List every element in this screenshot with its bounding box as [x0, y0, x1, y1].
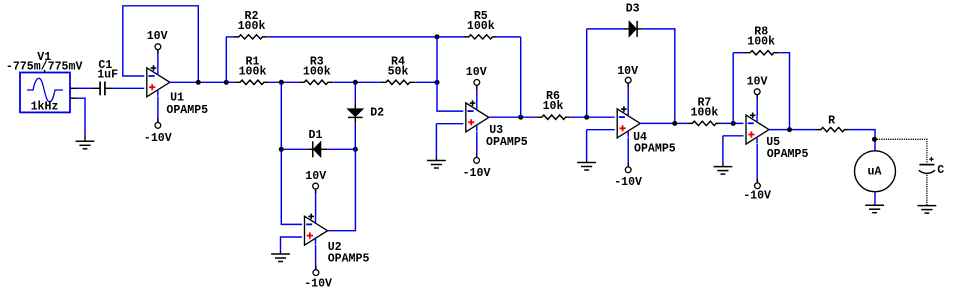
wire R to meter: [850, 130, 875, 151]
capacitor C: [919, 157, 935, 173]
wire U1 output: [170, 81, 235, 83]
svg-text:R: R: [828, 115, 835, 128]
label C1: [98, 59, 112, 72]
wire R6 to U4: [571, 116, 615, 118]
label U1 OPAMP5: [166, 104, 208, 117]
label -775m/775mV: [6, 60, 83, 73]
wire V1 pin1 to C1: [77, 87, 100, 89]
svg-text:D2: D2: [370, 106, 384, 119]
ground at U3: [427, 158, 446, 169]
svg-text:10V: 10V: [305, 170, 326, 183]
U3 +10V power wire: [476, 85, 478, 104]
diode D2: [347, 104, 363, 122]
node R8 branch: [731, 121, 736, 126]
node D1 left: [279, 147, 284, 152]
label D2: [370, 106, 384, 119]
label D3: [626, 2, 640, 15]
svg-text:D1: D1: [309, 129, 323, 142]
wire U5 noninverting to ground: [723, 136, 744, 164]
svg-text:U1: U1: [170, 92, 184, 105]
terminal -10V of U3: [474, 153, 480, 163]
resistor R: [816, 127, 850, 131]
ground below C: [918, 205, 937, 213]
svg-text:-10V: -10V: [463, 167, 491, 180]
wire D3 loop left: [586, 29, 588, 117]
U4 -10V power wire: [627, 137, 629, 167]
diode D3: [624, 21, 643, 37]
op-amp U3: [466, 100, 489, 132]
terminal 10V of U5: [754, 89, 760, 99]
terminal -10V of U4: [625, 163, 631, 173]
wire D1 to D2 branch: [327, 148, 355, 150]
label 10V of U3: [466, 66, 487, 79]
svg-text:OPAMP5: OPAMP5: [486, 136, 528, 149]
label U2: [328, 241, 342, 254]
label -10V of U2: [304, 278, 332, 291]
svg-text:OPAMP5: OPAMP5: [166, 104, 208, 117]
svg-text:10k: 10k: [543, 100, 564, 113]
node summing top: [435, 34, 440, 39]
labels R6 10k: [543, 90, 564, 113]
wire to D2: [354, 82, 356, 104]
ground below meter: [865, 204, 884, 213]
wire C1 to U1 noninverting input: [106, 87, 145, 89]
op-amp U2: [305, 214, 328, 246]
U5 -10V power wire: [756, 144, 758, 183]
svg-text:10V: 10V: [147, 30, 168, 43]
terminal 10V of U4: [625, 77, 631, 87]
wire R8 row left: [733, 52, 745, 54]
node summing main: [435, 80, 440, 85]
label -10V of U3: [463, 167, 491, 180]
svg-text:10V: 10V: [466, 66, 487, 79]
U3 -10V power wire: [476, 131, 478, 157]
svg-text:1kHz: 1kHz: [31, 101, 59, 114]
resistor R7: [687, 121, 721, 125]
wire down to D1 and U2 inverting input: [281, 82, 302, 224]
label U4: [633, 131, 647, 144]
node D1 branch: [279, 80, 284, 85]
ground at U4: [577, 160, 596, 171]
svg-text:100k: 100k: [303, 65, 331, 78]
svg-text:10V: 10V: [747, 76, 768, 89]
label 10V of U2: [305, 170, 326, 183]
ground at U5: [714, 164, 733, 175]
labels R1 100k: [239, 55, 267, 78]
ammeter uA: [855, 151, 896, 192]
labels R8 100k: [747, 26, 775, 49]
label U3: [489, 124, 503, 137]
svg-text:100k: 100k: [467, 20, 495, 33]
labels R5 100k: [467, 10, 495, 33]
resistor R1: [235, 80, 269, 84]
wire U4 noninverting to ground: [587, 130, 615, 160]
svg-text:-10V: -10V: [743, 190, 771, 203]
U1 +10V power wire: [157, 50, 159, 69]
svg-text:D3: D3: [626, 2, 640, 15]
wire R7 to U5: [722, 122, 744, 124]
resistor R5: [464, 35, 498, 39]
svg-text:10V: 10V: [617, 65, 638, 78]
label U2 OPAMP5: [328, 253, 370, 266]
svg-text:100k: 100k: [238, 20, 266, 33]
label U1: [170, 92, 184, 105]
node D2 branch: [353, 80, 358, 85]
label C: [937, 164, 944, 177]
label 10V of U4: [617, 65, 638, 78]
svg-text:C: C: [937, 164, 944, 177]
node U3 output: [518, 115, 523, 120]
node R2 branch: [224, 80, 229, 85]
label 10V of U1: [147, 30, 168, 43]
label U5: [766, 136, 780, 149]
wire U3 noninverting to ground: [436, 124, 463, 158]
svg-text:100k: 100k: [690, 106, 718, 119]
terminal -10V of U2: [313, 266, 319, 276]
terminal 10V of U3: [474, 80, 480, 90]
terminal -10V of U5: [755, 179, 761, 189]
svg-text:100k: 100k: [747, 36, 775, 49]
terminal -10V of U1: [155, 118, 161, 128]
wire U2 noninverting to ground: [281, 237, 303, 251]
label 1uF: [97, 68, 118, 81]
voltage source V1 box: [20, 73, 70, 113]
V1 pin 2: [70, 97, 77, 99]
op-amp U4: [617, 106, 640, 138]
wire to D1: [281, 148, 308, 150]
svg-text:uA: uA: [868, 166, 882, 179]
label 1kHz: [31, 101, 59, 114]
dotted wire C to ground: [926, 175, 928, 206]
U2 +10V power wire: [315, 189, 317, 217]
wire U2 output up: [328, 149, 356, 230]
svg-text:OPAMP5: OPAMP5: [767, 148, 809, 161]
wire R8 loop right: [779, 53, 789, 130]
U4 +10V power wire: [627, 83, 629, 110]
ground below V1: [76, 134, 95, 149]
labels R4 50k: [388, 55, 409, 78]
label R: [828, 115, 835, 128]
svg-text:-10V: -10V: [614, 176, 642, 189]
wire D3 row left: [587, 28, 624, 30]
svg-text:50k: 50k: [388, 65, 409, 78]
wire meter to ground: [874, 192, 876, 204]
label -10V of U4: [614, 176, 642, 189]
wire R2 to node B: [268, 36, 464, 38]
label V1: [37, 51, 51, 64]
wire D2 to D1 row: [354, 122, 356, 149]
labels R2 100k: [238, 10, 266, 33]
wire U3 output: [489, 116, 537, 118]
op-amp U1: [147, 65, 170, 97]
label U3 OPAMP5: [486, 136, 528, 149]
wire V1 pin2 to ground: [77, 98, 86, 134]
label D1: [309, 129, 323, 142]
terminal 10V of U1: [155, 44, 161, 54]
node D1 right: [353, 147, 358, 152]
label -10V of U5: [743, 190, 771, 203]
labels R3 100k: [303, 55, 331, 78]
wire R8 loop left: [732, 53, 734, 124]
label 10V of U5: [747, 76, 768, 89]
diode D1: [308, 141, 327, 157]
resistor R4: [381, 80, 415, 84]
wire D3 loop right: [643, 29, 675, 124]
U2 -10V power wire: [315, 245, 317, 270]
label -10V of U1: [144, 132, 172, 145]
node D3 branch: [584, 115, 589, 120]
labels R7 100k: [690, 96, 718, 119]
label U4 OPAMP5: [634, 143, 676, 156]
wire R2 row left: [226, 36, 233, 38]
label U5 OPAMP5: [767, 148, 809, 161]
svg-text:-10V: -10V: [144, 132, 172, 145]
wire R3 to R4: [333, 81, 381, 83]
U1 -10V power wire: [157, 96, 159, 122]
node U1 output: [196, 80, 201, 85]
node U5 output: [787, 127, 792, 132]
wire R2 vertical: [225, 37, 227, 82]
U5 +10V power wire: [756, 95, 758, 117]
wire R5 row left: [498, 36, 521, 38]
capacitor C1: [100, 82, 105, 96]
wire U5 output: [769, 129, 816, 131]
op-amp U5: [746, 113, 769, 145]
node U4 output: [672, 121, 677, 126]
resistor R2: [234, 35, 268, 39]
svg-text:OPAMP5: OPAMP5: [634, 143, 676, 156]
node meter top: [872, 137, 877, 142]
terminal 10V of U2: [313, 183, 319, 193]
svg-text:100k: 100k: [239, 65, 267, 78]
wire U1 feedback loop: [123, 6, 199, 83]
wire U4 output: [640, 122, 687, 124]
wire R4 to summing node: [415, 81, 437, 83]
wire summing node vertical: [437, 37, 463, 111]
resistor R8: [745, 51, 779, 55]
svg-text:1uF: 1uF: [97, 68, 118, 81]
V1 pin 1: [70, 87, 77, 89]
svg-text:-10V: -10V: [304, 278, 332, 291]
ground below U2: [271, 251, 290, 262]
dotted wire to capacitor C: [877, 139, 927, 163]
svg-text:OPAMP5: OPAMP5: [328, 253, 370, 266]
resistor R6: [537, 115, 571, 119]
wire R1 to R3: [269, 81, 299, 83]
wire R5 vertical: [520, 37, 522, 117]
resistor R3: [299, 80, 333, 84]
